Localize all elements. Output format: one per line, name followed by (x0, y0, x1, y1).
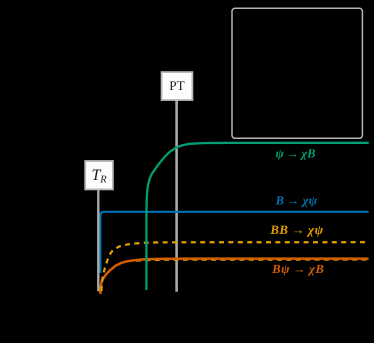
curve B -> chi psi (blue) (100, 212, 368, 273)
PT marker box (162, 72, 193, 100)
svg-text:BB → χψ: BB → χψ (269, 223, 323, 237)
gold dashed companion hugging bottom of vermillion curve (136, 260, 369, 261)
legend frame (empty rounded box, top right) (232, 8, 362, 138)
vertical marker line under PT box (175, 99, 178, 292)
svg-text:ψ → χB: ψ → χB (275, 146, 315, 160)
TR marker box (85, 161, 113, 189)
svg-text:R: R (99, 174, 107, 185)
svg-text:Bψ → χB: Bψ → χB (271, 262, 324, 276)
vertical marker line under TR box (97, 189, 99, 292)
curve BB -> chi psi (gold dashed) (101, 242, 368, 291)
curve B psi -> chi B (vermillion solid) (100, 259, 368, 294)
svg-text:PT: PT (169, 78, 184, 93)
curve psi -> chi B (green) (146, 143, 368, 290)
svg-text:B → χψ: B → χψ (275, 193, 318, 207)
